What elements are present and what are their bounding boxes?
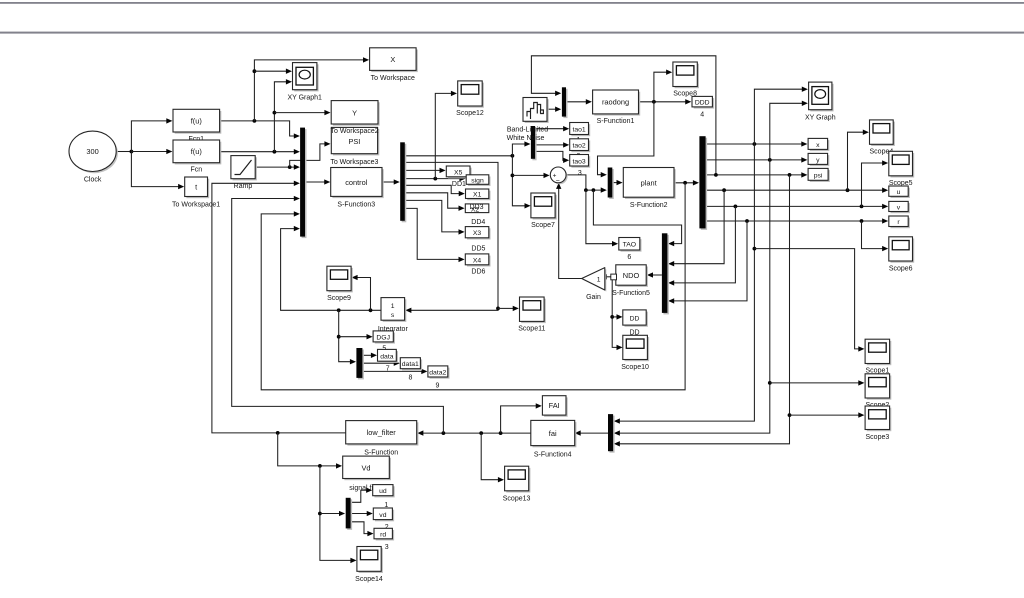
svg-text:To Workspace1: To Workspace1 bbox=[172, 202, 220, 209]
block: tao2 tag bbox=[570, 139, 591, 152]
wire: branch up from Fcn line to Y and XY Graph1 input 2 bbox=[273, 82, 287, 152]
svg-text:f(u): f(u) bbox=[191, 116, 202, 125]
block: Gain triangle bbox=[582, 268, 607, 302]
wire: branch to XY Graph1 input 1 bbox=[254, 70, 286, 72]
wire: NDO junction down to DD and Scope10 bbox=[610, 277, 617, 348]
wire: tao demux out2 to tao2 bbox=[535, 144, 564, 146]
wire: sum output to plant mux input 2 bbox=[566, 175, 601, 192]
block: data1 tag bbox=[400, 358, 422, 371]
wire: Clock output to junction bbox=[116, 150, 133, 154]
wire: NDO mux output to NDO block bbox=[653, 274, 662, 276]
svg-text:4: 4 bbox=[700, 111, 704, 118]
wire: branch to DD block bbox=[612, 316, 617, 318]
svg-text:300: 300 bbox=[86, 147, 98, 156]
toolbar separator line bottom bbox=[0, 32, 1024, 34]
svg-text:XY Graph1: XY Graph1 bbox=[287, 95, 322, 102]
block: fai S-Function4 bbox=[531, 420, 577, 458]
svg-text:psi: psi bbox=[814, 172, 823, 179]
block: Scope9 bbox=[327, 266, 353, 302]
wire: branch down to sum input bbox=[511, 156, 525, 206]
wire: branch down to Scope13 bbox=[481, 433, 498, 480]
wire: raodong branch down to plant mux input 1 bbox=[598, 102, 654, 175]
svg-text:tao3: tao3 bbox=[572, 158, 585, 165]
svg-text:X4: X4 bbox=[473, 257, 482, 264]
svg-text:S-Function2: S-Function2 bbox=[630, 202, 668, 209]
mux bar: raodong mux bbox=[562, 87, 568, 118]
svg-text:7: 7 bbox=[386, 365, 390, 372]
block: Scope2 bbox=[865, 374, 891, 409]
svg-text:8: 8 bbox=[409, 374, 413, 381]
block: DDD tag bbox=[692, 96, 714, 108]
block: FAI tag bbox=[542, 396, 567, 417]
svg-text:data1: data1 bbox=[402, 361, 419, 368]
wire: demux out1 to junction 512 bbox=[405, 154, 515, 158]
wire: psi feedback top loop to raodong mux input 1 bbox=[531, 56, 716, 175]
wire: data mux out3 to data2 bbox=[362, 370, 421, 372]
toolbar separator line top bbox=[0, 2, 1024, 4]
block: Fcn f(u) bbox=[173, 140, 221, 174]
svg-text:XY Graph: XY Graph bbox=[805, 115, 836, 122]
wire: r branch down to NDO mux input 4 bbox=[674, 221, 747, 301]
block: data2 tag bbox=[428, 366, 450, 379]
block: Scope11 bbox=[518, 297, 546, 333]
wire: low_filter output feedback to mux input 4 bbox=[212, 183, 346, 434]
wire: fai feedback loop to mux input 5 bbox=[232, 199, 444, 434]
wire: psi branch down to fai mux input 3 bbox=[619, 175, 791, 444]
svg-text:1: 1 bbox=[597, 277, 601, 284]
svg-text:White Noise: White Noise bbox=[507, 135, 545, 142]
svg-text:6: 6 bbox=[627, 254, 631, 261]
block: gain port square bbox=[611, 274, 617, 280]
wire: branch up to tao demux input bbox=[512, 144, 525, 156]
svg-text:DD5: DD5 bbox=[471, 245, 485, 252]
wire: branch to Y block bbox=[274, 112, 325, 114]
svg-text:PSI: PSI bbox=[348, 137, 360, 146]
svg-text:FAI: FAI bbox=[549, 401, 560, 410]
svg-text:Clock: Clock bbox=[84, 177, 102, 184]
block: Scope12 bbox=[456, 81, 484, 117]
block: PSI To Workspace3 bbox=[330, 127, 379, 165]
svg-text:9: 9 bbox=[435, 382, 439, 389]
svg-text:TAO: TAO bbox=[623, 242, 636, 249]
block: Fcn1 f(u) bbox=[173, 109, 221, 143]
svg-text:Scope10: Scope10 bbox=[621, 364, 649, 371]
wire: x branch to Scope1 bbox=[754, 249, 858, 349]
block: r tag bbox=[889, 216, 910, 228]
mux bar: plant mux bbox=[608, 168, 614, 200]
wire: Integrator output feedback to mux input 7 bbox=[281, 229, 381, 313]
block: Scope13 bbox=[503, 466, 531, 503]
svg-text:u: u bbox=[897, 189, 901, 196]
wire: demux2 out4 to u block bbox=[706, 188, 883, 192]
wire: junction to Fcn input bbox=[131, 151, 166, 153]
block: DD tag bbox=[623, 310, 648, 327]
svg-text:sign: sign bbox=[471, 177, 484, 184]
block: X2 tag bbox=[465, 204, 489, 214]
wire: v branch down to NDO mux input 3 bbox=[674, 206, 736, 283]
block: sum circle bbox=[550, 167, 567, 185]
block: XY Graph right bbox=[805, 82, 836, 121]
block: X1 tag bbox=[466, 189, 491, 200]
mux bar: signal mux bbox=[346, 498, 352, 530]
svg-text:DD: DD bbox=[630, 316, 640, 323]
mux bar: data mux bbox=[356, 348, 364, 379]
wire: demux out2 down to integrator input bbox=[405, 162, 500, 310]
svg-text:rd: rd bbox=[380, 532, 386, 539]
wire: v branch up to Scope5 bbox=[862, 163, 883, 206]
svg-text:fai: fai bbox=[549, 429, 557, 438]
wire: demux out4 to sign block bbox=[405, 177, 460, 181]
wire: data mux out1 to data bbox=[362, 354, 371, 356]
svg-text:v: v bbox=[897, 204, 901, 211]
block: Scope1 bbox=[865, 339, 891, 375]
svg-text:DD3: DD3 bbox=[469, 204, 483, 211]
block: X5 tag bbox=[446, 166, 471, 179]
wire: branch over mux bar to PSI input bbox=[290, 144, 325, 167]
svg-text:X3: X3 bbox=[473, 230, 482, 237]
wire: demux out7 to X3 bbox=[405, 200, 459, 232]
wire: demux2 out2 to y block bbox=[706, 158, 802, 162]
svg-text:DD6: DD6 bbox=[471, 268, 485, 275]
wire: branch to DGJ input bbox=[339, 336, 367, 338]
wire: branch up to Scope9 input bbox=[357, 278, 370, 311]
svg-text:ud: ud bbox=[379, 488, 387, 495]
block: y tag bbox=[808, 153, 829, 166]
svg-text:raodong: raodong bbox=[602, 98, 629, 107]
block: ud tag bbox=[373, 485, 395, 498]
wire: branch to signal mux bbox=[320, 513, 340, 515]
wire: NDO output to Gain input bbox=[606, 275, 615, 279]
wire: signal mux out2 to vd bbox=[351, 513, 368, 515]
wire: branch down to Vd input bbox=[278, 433, 337, 468]
wire: demux out5 to X1 bbox=[405, 185, 459, 193]
svg-text:S-Function4: S-Function4 bbox=[534, 452, 572, 459]
svg-text:Scope3: Scope3 bbox=[866, 434, 890, 441]
block: t To Workspace1 bbox=[172, 177, 220, 209]
svg-text:DD4: DD4 bbox=[471, 219, 485, 226]
svg-text:Scope7: Scope7 bbox=[531, 222, 555, 229]
wire: tao demux out1 to tao1 bbox=[535, 128, 564, 130]
svg-text:S-Function1: S-Function1 bbox=[597, 118, 635, 125]
wire: Gain output up to sum minus input bbox=[559, 188, 582, 278]
svg-text:NDO: NDO bbox=[623, 271, 640, 280]
mux bar: big demux bbox=[699, 136, 707, 230]
wire: demux2 out1 to x block bbox=[706, 142, 802, 146]
svg-text:s: s bbox=[391, 312, 395, 319]
wire: data mux out2 to data1 bbox=[362, 362, 394, 364]
svg-text:control: control bbox=[345, 178, 368, 187]
wire: Fcn output to mux input 2 bbox=[220, 150, 295, 154]
wire: branch up to Scope8 bbox=[654, 72, 667, 102]
svg-text:To Workspace3: To Workspace3 bbox=[330, 159, 378, 166]
block: raodong S-Function1 bbox=[593, 90, 641, 125]
svg-text:tao1: tao1 bbox=[572, 127, 585, 134]
block: Integrator bbox=[378, 298, 409, 333]
wire: branch down to signal mux input bbox=[318, 466, 351, 561]
block: vd tag bbox=[373, 508, 394, 521]
wire: branch down to DGJ bbox=[337, 310, 351, 361]
wire: fai output to low_filter input bbox=[423, 431, 531, 435]
block: plant S-Function2 bbox=[623, 168, 675, 210]
svg-text:tao2: tao2 bbox=[572, 143, 585, 150]
svg-text:vd: vd bbox=[379, 512, 386, 519]
wire: u branch up to Scope4 bbox=[848, 132, 864, 190]
block: Scope7 bbox=[531, 193, 557, 229]
block: v tag bbox=[889, 201, 910, 213]
svg-text:S-Function3: S-Function3 bbox=[337, 202, 375, 209]
block: rd tag bbox=[374, 528, 394, 540]
wire: x branch up to XY Graph input 1 bbox=[754, 89, 802, 144]
wire: raodong output to DDD bbox=[639, 100, 686, 104]
svg-text:Scope6: Scope6 bbox=[889, 266, 913, 273]
wire: signal mux out1 to ud bbox=[351, 490, 367, 502]
svg-text:X: X bbox=[390, 55, 395, 64]
block: DGJ tag bbox=[373, 331, 395, 344]
block: Scope10 bbox=[621, 335, 649, 371]
svg-text:plant: plant bbox=[641, 178, 657, 187]
wire: branch up to X block bbox=[253, 60, 364, 121]
block: X To Workspace bbox=[370, 48, 418, 82]
svg-text:Y: Y bbox=[352, 109, 357, 118]
wire: u branch down to NDO mux input 2 bbox=[674, 190, 724, 264]
svg-text:1: 1 bbox=[391, 303, 395, 310]
svg-text:DGJ: DGJ bbox=[376, 334, 390, 341]
svg-text:3: 3 bbox=[578, 170, 582, 177]
svg-text:S-Function: S-Function bbox=[364, 450, 398, 457]
block: Scope14 bbox=[355, 547, 383, 583]
block: NDO S-Function5 bbox=[612, 265, 650, 297]
wire: y branch to Scope2 bbox=[770, 382, 859, 384]
wire: branch to Scope11 bbox=[498, 307, 513, 309]
block: TAO tag bbox=[619, 238, 642, 252]
svg-text:Scope13: Scope13 bbox=[503, 496, 531, 503]
svg-text:Gain: Gain bbox=[586, 294, 601, 301]
wire: demux2 out6 to r block bbox=[706, 219, 883, 223]
wire: plant mux output to plant bbox=[612, 182, 617, 184]
wire: junction up to Fcn1 input bbox=[131, 121, 166, 152]
svg-text:Scope11: Scope11 bbox=[518, 326, 545, 333]
block: low_filter S-Function bbox=[346, 421, 419, 457]
wire: raodong mux output to raodong bbox=[566, 101, 586, 103]
mux bar: NDO mux bbox=[662, 233, 669, 314]
wire: Ramp output to mux input 3 bbox=[255, 165, 294, 169]
wire: branch up to FAI block bbox=[501, 406, 537, 433]
svg-text:t: t bbox=[195, 183, 197, 192]
wire: demux2 out3 to psi block bbox=[706, 173, 802, 177]
svg-text:Band-Limited: Band-Limited bbox=[507, 126, 548, 133]
block: Scope6 bbox=[889, 237, 914, 273]
wire: tao demux out3 to tao3 bbox=[535, 151, 564, 160]
block: u tag bbox=[889, 186, 910, 198]
svg-text:−: − bbox=[556, 178, 560, 185]
wire: signal mux out3 to rd bbox=[351, 522, 368, 534]
wire: demux out8 to X4 bbox=[405, 208, 459, 259]
svg-text:Scope14: Scope14 bbox=[355, 576, 383, 583]
wire: plant output to big demux bbox=[674, 181, 693, 185]
block: X4 tag bbox=[465, 254, 490, 267]
svg-text:Ramp: Ramp bbox=[234, 183, 253, 190]
wire: y branch down to fai mux input 2 bbox=[619, 160, 771, 433]
block: Scope5 bbox=[889, 151, 914, 187]
block: Band-Limited White Noise bbox=[507, 98, 549, 142]
wire: branch down to TAO block bbox=[586, 190, 613, 244]
svg-text:Fcn: Fcn bbox=[190, 167, 202, 174]
wire: y branch up to XY Graph input 2 bbox=[770, 103, 803, 160]
mux bar: control mux bbox=[300, 128, 306, 239]
block: Vd signal filter bbox=[343, 456, 391, 492]
svg-text:DDD: DDD bbox=[695, 100, 710, 107]
svg-text:y: y bbox=[816, 157, 820, 164]
block: x tag bbox=[808, 138, 829, 151]
wire: plant output feedback loop to mux input 6 bbox=[261, 183, 685, 390]
wire: psi branch to Scope3 bbox=[790, 414, 859, 416]
block: Scope4 bbox=[870, 120, 895, 156]
svg-text:low_filter: low_filter bbox=[367, 428, 397, 437]
svg-text:3: 3 bbox=[385, 544, 389, 551]
wire: control output to demux bbox=[382, 181, 394, 183]
wire: branch to NDO mux input 1 bbox=[593, 190, 681, 244]
wire: x branch down to fai mux input 1 bbox=[619, 144, 756, 421]
mux bar: tao demux bbox=[531, 126, 537, 160]
block: Clock bbox=[69, 131, 118, 183]
block: sign tag bbox=[466, 175, 490, 186]
svg-text:Vd: Vd bbox=[361, 463, 370, 472]
block: Ramp bbox=[231, 156, 257, 190]
svg-text:f(u): f(u) bbox=[191, 147, 202, 156]
wire: junction down to t block input bbox=[131, 152, 178, 187]
svg-text:X5: X5 bbox=[454, 170, 463, 177]
svg-text:To Workspace2: To Workspace2 bbox=[331, 128, 379, 135]
svg-text:data2: data2 bbox=[429, 370, 446, 377]
mux bar: fai mux bbox=[608, 414, 615, 453]
block: Scope3 bbox=[865, 406, 891, 441]
block: X3 tag bbox=[465, 227, 490, 240]
mux bar: control demux bbox=[400, 142, 406, 222]
wire: control mux output to control block bbox=[305, 181, 325, 183]
wire: demux out3 to X5 bbox=[405, 169, 440, 171]
block: tao1 tag bbox=[570, 123, 591, 137]
wire: Fcn1 output with junction at 254.4 bbox=[220, 119, 295, 136]
svg-text:x: x bbox=[816, 142, 820, 149]
wire: branch up to Scope12 bbox=[435, 93, 451, 178]
svg-text:DD1: DD1 bbox=[452, 181, 466, 188]
wire: branch to sum plus input bbox=[512, 174, 544, 176]
svg-text:Scope12: Scope12 bbox=[456, 110, 484, 117]
svg-text:Scope9: Scope9 bbox=[327, 295, 351, 302]
wire: demux2 out5 to v block bbox=[706, 205, 883, 209]
block: psi tag bbox=[808, 168, 830, 182]
wire: demux out6 to X2 bbox=[405, 193, 459, 208]
block: data tag bbox=[378, 349, 399, 363]
svg-text:S-Function5: S-Function5 bbox=[612, 290, 650, 297]
svg-text:To Workspace: To Workspace bbox=[371, 75, 415, 82]
wire: r branch down to Scope6 bbox=[862, 221, 883, 249]
svg-text:X1: X1 bbox=[473, 192, 482, 199]
block: XY Graph1 bbox=[287, 63, 322, 102]
block: Scope8 bbox=[673, 62, 699, 97]
wire: White Noise output to raodong mux input 2 bbox=[547, 108, 556, 110]
block: Y To Workspace2 bbox=[331, 101, 379, 126]
block: tao3 tag bbox=[570, 155, 591, 168]
wire: fai mux output to fai block bbox=[580, 432, 608, 434]
svg-text:data: data bbox=[380, 354, 393, 361]
block: control S-Function3 bbox=[331, 168, 384, 209]
